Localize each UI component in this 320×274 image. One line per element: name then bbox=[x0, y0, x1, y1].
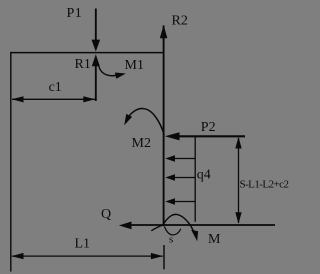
node R2 reaction arrow bbox=[160, 25, 168, 40]
node R1 reaction arrow bbox=[92, 54, 100, 101]
svg-text:M1: M1 bbox=[125, 58, 144, 73]
svg-text:L1: L1 bbox=[75, 237, 91, 252]
wire: top horizontal body line bbox=[10, 52, 164, 54]
node M2 moment arc bbox=[124, 109, 164, 135]
wire: bottom horizontal line bbox=[125, 224, 275, 226]
svg-text:M: M bbox=[208, 232, 221, 247]
node q4 load arrow 3 bbox=[165, 198, 195, 204]
svg-text:P2: P2 bbox=[201, 120, 216, 135]
node P1 force arrow bbox=[92, 9, 101, 52]
svg-text:R2: R2 bbox=[172, 14, 188, 29]
node q4 load arrow 1 bbox=[165, 155, 195, 161]
wire: left vertical body line bbox=[10, 52, 12, 271]
node c1 dimension bbox=[12, 96, 96, 102]
svg-text:c1: c1 bbox=[49, 80, 62, 95]
node S dimension vertical bbox=[235, 137, 241, 224]
node q4 load arrow 2 bbox=[165, 174, 195, 180]
node M1 moment arc bbox=[98, 64, 126, 79]
wire: L1 right extension line bbox=[163, 245, 165, 269]
wire: main vertical beam line bbox=[163, 36, 165, 226]
node P2 force arrow bbox=[165, 132, 245, 140]
svg-text:Q: Q bbox=[101, 207, 111, 222]
node L1 dimension bbox=[11, 253, 163, 259]
svg-text:s: s bbox=[169, 234, 173, 246]
svg-text:M2: M2 bbox=[132, 136, 151, 151]
node Q shear arrow bbox=[119, 222, 132, 230]
wire: distributed load boundary line bbox=[194, 137, 196, 222]
svg-text:S-L1-L2+c2: S-L1-L2+c2 bbox=[240, 179, 289, 191]
svg-text:q4: q4 bbox=[197, 168, 211, 183]
svg-text:R1: R1 bbox=[75, 57, 91, 72]
svg-text:P1: P1 bbox=[67, 6, 83, 21]
node M moment curl bbox=[151, 214, 198, 241]
